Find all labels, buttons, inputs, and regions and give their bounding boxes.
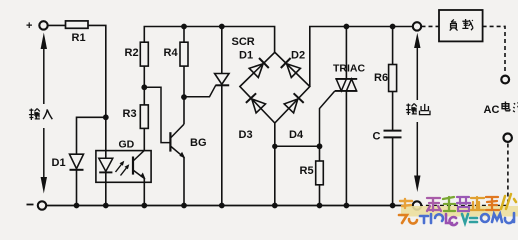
svg-text:BG: BG (190, 137, 207, 149)
label 输出 (406, 104, 430, 115)
wire TRIAC MT1 to bottom rail (345, 91, 347, 206)
svg-text:D1: D1 (239, 50, 253, 62)
wire from R1 right, down to optocoupler node (88, 25, 106, 117)
resistor R5 (300, 161, 324, 185)
node bridge bottom / R5 branch (272, 144, 277, 149)
watermark band (401, 206, 518, 217)
node R2/R3/base branch (141, 84, 147, 90)
terminal + (positive input) (26, 20, 48, 32)
wire SCR gate (184, 85, 216, 96)
node TRIAC gate / R5 (317, 143, 323, 149)
junction R5 / bottom rail (317, 203, 323, 209)
svg-text:D2: D2 (291, 50, 305, 62)
junction LED / bottom rail (103, 203, 109, 209)
terminal - (negative input) (27, 201, 47, 209)
svg-text:R1: R1 (72, 32, 86, 44)
wire to R5 branch (275, 145, 320, 147)
svg-text:C: C (373, 131, 381, 143)
terminal AC bottom (504, 134, 512, 142)
wire C to bottom rail (392, 137, 394, 205)
svg-text:TRIAC: TRIAC (333, 63, 365, 75)
diode D1 (bridge) (239, 50, 269, 78)
wire phototransistor collector to R3 (143, 128, 145, 150)
label AC电流 (484, 102, 518, 117)
svg-text:R6: R6 (374, 72, 388, 84)
resistor R1 (66, 21, 89, 44)
diode D2 (bridge) (281, 50, 305, 78)
svg-text:+: + (26, 20, 32, 32)
triac TRIAC (333, 63, 365, 91)
transistor BG (170, 124, 206, 158)
svg-text:R2: R2 (125, 47, 139, 59)
svg-text:SCR: SCR (232, 36, 255, 48)
diode D3 (bridge) (239, 93, 266, 141)
thyristor SCR (215, 36, 255, 85)
junction TRIAC / top rail (344, 24, 350, 30)
resistor R2 (125, 42, 149, 66)
wire rail to TRIAC (345, 27, 347, 79)
junction emitter / bottom rail (141, 203, 147, 209)
wire R2 to R3 (143, 66, 145, 105)
svg-text:R3: R3 (123, 108, 137, 120)
junction R4 / top rail (181, 24, 187, 30)
terminal output bottom (413, 201, 421, 209)
optocoupler LED (99, 158, 113, 172)
wire R4 to gate node (183, 66, 185, 97)
node R4/collector/SCR gate (181, 94, 187, 100)
bridge frame (240, 52, 310, 123)
resistor R3 (123, 105, 149, 128)
input arrow up (41, 33, 47, 105)
junction C / bottom rail (390, 203, 396, 209)
svg-text:D4: D4 (289, 129, 304, 141)
output arrow up (414, 33, 420, 100)
svg-text:GD: GD (119, 139, 135, 151)
wire rail to R4 (183, 27, 185, 43)
wire from + terminal to R1 (48, 24, 66, 26)
wire rail to R6 (392, 27, 394, 65)
junction BG emitter / bottom rail (181, 203, 187, 209)
wire bridge bottom to bottom rail (274, 123, 276, 206)
junction bridge bottom / bottom rail (272, 203, 278, 209)
wire BG emitter to bottom rail (183, 157, 185, 205)
resistor R6 (374, 65, 397, 92)
wire top rail left segment (144, 27, 274, 53)
output arrow down (414, 122, 420, 192)
junction SCR / bottom rail (219, 203, 225, 209)
diode D4 (bridge) (284, 93, 304, 141)
resistor R4 (164, 42, 189, 66)
wire top rail right segment (310, 27, 413, 87)
wire phototransistor emitter to bottom rail (143, 178, 145, 205)
input arrow down (41, 128, 47, 194)
wire base branch to BG (144, 87, 169, 142)
svg-text:D3: D3 (239, 129, 253, 141)
terminal output top (413, 22, 421, 30)
svg-text:AC: AC (484, 104, 500, 116)
wire node to R5 (319, 146, 321, 161)
bottom rail (46, 205, 413, 207)
capacitor C (373, 131, 402, 143)
wire R6 to capacitor C (392, 92, 394, 131)
wire R5 to bottom rail (319, 185, 321, 206)
watermark row1 (400, 194, 516, 211)
watermark row2 (399, 213, 514, 225)
junction TRIAC / bottom rail (344, 203, 350, 209)
wire LED cathode to bottom rail (105, 172, 107, 205)
svg-text:D1: D1 (52, 157, 66, 169)
wire junction to D1 branch (77, 117, 106, 154)
terminal AC top (501, 76, 509, 84)
node junction R1/D1/LED (103, 114, 109, 120)
wire dashed to load (422, 25, 440, 27)
wire TRIAC gate (320, 91, 335, 146)
optocoupler GD box (96, 139, 151, 183)
label 输入 (29, 109, 52, 120)
junction R6 / top rail (390, 24, 396, 30)
light arrows (116, 161, 130, 176)
diode D1 (input protection) (52, 154, 84, 170)
load box 负载 (439, 10, 483, 41)
wire dashed from load to AC terminal (483, 26, 505, 73)
svg-text:R5: R5 (300, 165, 314, 177)
wire BG collector up to gate node (183, 97, 185, 124)
wire SCR cathode to bottom rail (221, 85, 223, 205)
junction SCR anode / top rail (219, 24, 225, 30)
optocoupler phototransistor (133, 150, 146, 179)
junction D1 / bottom rail (74, 203, 80, 209)
wire dashed AC return (422, 144, 508, 206)
svg-text:R4: R4 (164, 47, 179, 59)
wire rail to SCR anode (221, 27, 223, 74)
wire into LED anode (105, 117, 107, 158)
wire D1 to bottom rail (76, 170, 78, 206)
